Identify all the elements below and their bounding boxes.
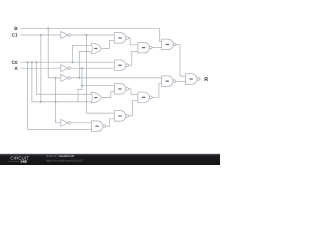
wire C1' riser to AND-P — [86, 35, 114, 113]
wire AND1 output to AND3 top — [129, 38, 138, 45]
inverter U4 (B tap) — [61, 119, 71, 126]
nand gate AND4 — [162, 39, 176, 50]
wire OR2 output to AND-M bottom — [102, 92, 115, 98]
svg-text:C0: C0 — [12, 60, 18, 65]
wire OR1 output to AND1 bottom — [102, 41, 115, 49]
CircuitLab logo rule — [8, 160, 20, 162]
junction mid wire — [55, 101, 57, 103]
wire AND-N output to AND6 bottom — [152, 84, 161, 98]
wire AND5 output to AND-P bottom — [105, 119, 115, 126]
nand gate AND3 — [138, 42, 152, 53]
nand gate AND-M — [114, 84, 128, 95]
wire C1 horizontal — [21, 34, 61, 36]
wire A' net to AND-M top input — [82, 85, 114, 87]
wire A' output to AND2 — [70, 67, 114, 69]
inverter U1 (C1) — [61, 32, 71, 39]
junction C1 riser / OR2 bottom wire — [40, 101, 42, 103]
junction C0 / OR1 riser — [71, 61, 73, 63]
wire B to AND4 top — [160, 28, 162, 41]
junction B / inv riser — [47, 27, 49, 29]
wire B' riser to OR1 bottom — [79, 51, 91, 78]
wire B tap to inverter U4 — [56, 78, 61, 123]
junction A' net split — [81, 85, 83, 87]
CircuitLab logo LAB box — [20, 160, 27, 163]
svg-text:A: A — [14, 66, 18, 71]
wire C0 riser to OR2 top — [36, 62, 91, 94]
nand gate final (output) — [186, 74, 200, 85]
nand gate AND-N — [138, 92, 152, 103]
or-gate OR1 — [91, 43, 101, 54]
junction C1' / AND-P riser — [85, 34, 87, 36]
wire C0 horizontal — [21, 61, 115, 63]
wire B' output to AND6 — [70, 77, 161, 79]
wire final NAND output to R — [200, 78, 201, 80]
wire B to inverter U3 riser — [48, 28, 61, 78]
svg-text:R: R — [204, 77, 208, 83]
wire U4 output to AND5 top — [71, 122, 92, 124]
wire AND4 output to final NAND top — [176, 44, 185, 76]
junction C0 / OR2 riser — [35, 61, 37, 63]
nand gate AND1 — [114, 33, 128, 44]
wire C0 riser to OR1 top — [72, 45, 91, 62]
wire A horizontal — [21, 67, 61, 69]
wire AND-M output to AND-N top — [127, 89, 138, 95]
junction B' / OR1 riser — [78, 77, 80, 79]
wire B horizontal — [21, 27, 160, 29]
junction A' / AND-M riser — [81, 67, 83, 69]
wire AND2 output to AND3 bottom — [129, 51, 138, 65]
nand gate AND-P — [114, 111, 128, 122]
junction C1 / riser — [40, 34, 42, 36]
nand gate AND6 — [162, 76, 176, 87]
wire C0 riser to OR2 bottom — [32, 62, 91, 102]
svg-text:http://circuitlab.com/c62ac26: http://circuitlab.com/c62ac26 — [46, 159, 83, 163]
nand gate AND5 — [91, 121, 105, 132]
wire A' riser to AND-M top — [81, 68, 83, 84]
wire C1' output to AND1 — [70, 34, 114, 36]
or-gate OR2 — [91, 92, 101, 103]
wire AND3 output to AND4 bottom — [152, 47, 161, 49]
junction B input / U4 tap — [55, 77, 57, 79]
wire C0 riser to AND5 bottom — [28, 62, 92, 129]
wire AND-P output to AND-N bottom — [129, 100, 138, 116]
junction C0 / OR2 bottom riser — [31, 61, 33, 63]
svg-text:LAB: LAB — [21, 161, 27, 164]
inverter U3 (B) — [61, 74, 71, 81]
nand gate AND2 — [114, 60, 128, 70]
wire A' net jog down to OR2 bottom wire — [78, 84, 82, 102]
svg-text:B: B — [14, 26, 18, 31]
inverter U2 (A) — [61, 65, 71, 72]
wire C1 riser down — [40, 35, 42, 102]
wire AND6 output to final NAND bottom — [176, 80, 186, 82]
svg-text:C1: C1 — [12, 32, 18, 37]
junction C0 / AND5 riser — [27, 61, 29, 63]
